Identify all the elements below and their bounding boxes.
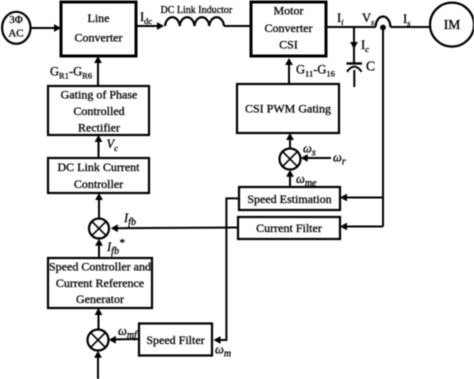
svg-text:DC Link Inductor: DC Link Inductor: [161, 5, 233, 16]
svg-text:Vc: Vc: [107, 137, 119, 153]
svg-text:Current Filter: Current Filter: [256, 221, 322, 235]
svg-text:CSI: CSI: [279, 38, 298, 52]
svg-text:Vs: Vs: [362, 11, 375, 27]
svg-text:Speed Estimation: Speed Estimation: [247, 192, 331, 206]
svg-text:3Φ: 3Φ: [9, 14, 23, 26]
svg-text:Ii: Ii: [337, 11, 344, 27]
svg-text:Motor: Motor: [274, 4, 304, 18]
svg-text:Controlled: Controlled: [73, 104, 124, 118]
svg-text:Ifb*: Ifb*: [106, 237, 125, 257]
svg-text:Speed Controller and: Speed Controller and: [49, 259, 151, 273]
svg-text:Idc: Idc: [140, 10, 152, 26]
svg-text:IM: IM: [444, 17, 461, 32]
svg-text:ωr: ωr: [333, 151, 346, 168]
svg-text:DC Link Current: DC Link Current: [58, 160, 141, 174]
svg-text:G11-G16: G11-G16: [296, 63, 335, 79]
svg-text:Current Reference: Current Reference: [56, 276, 144, 290]
svg-text:Rectifier: Rectifier: [78, 121, 120, 135]
svg-text:C: C: [366, 59, 375, 74]
svg-text:GR1-GR6: GR1-GR6: [50, 65, 92, 81]
svg-text:Converter: Converter: [265, 21, 313, 35]
svg-text:AC: AC: [8, 28, 23, 40]
svg-text:CSI PWM Gating: CSI PWM Gating: [245, 102, 331, 116]
svg-text:Speed Filter: Speed Filter: [146, 333, 204, 347]
svg-text:Ic: Ic: [361, 38, 369, 54]
svg-text:ωm: ωm: [215, 343, 231, 360]
svg-text:Gating of Phase: Gating of Phase: [61, 87, 138, 101]
svg-text:Converter: Converter: [75, 30, 123, 44]
svg-text:Line: Line: [88, 11, 110, 25]
svg-text:Ifb: Ifb: [123, 211, 136, 228]
svg-text:Controller: Controller: [74, 177, 123, 191]
svg-text:Is: Is: [403, 12, 411, 28]
svg-text:Generator: Generator: [76, 292, 124, 306]
